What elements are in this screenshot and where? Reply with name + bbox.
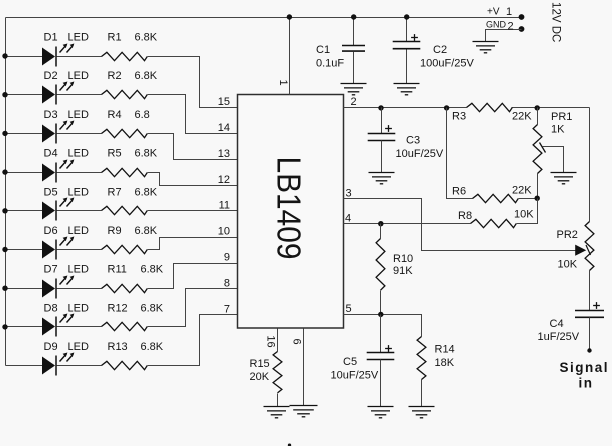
svg-text:LED: LED bbox=[68, 70, 89, 82]
ground C2 bbox=[394, 84, 420, 95]
svg-text:LED: LED bbox=[68, 186, 89, 198]
wire GND stub bbox=[486, 30, 522, 42]
node GND terminal bbox=[519, 26, 525, 32]
LED D8 bbox=[42, 314, 74, 337]
wire pin 3 to PR2 wiper bbox=[344, 199, 576, 251]
svg-text:LED: LED bbox=[68, 264, 89, 276]
LED D4 bbox=[42, 160, 74, 183]
svg-text:10uF/25V: 10uF/25V bbox=[396, 148, 444, 160]
wire LED row D2 from bus bbox=[6, 94, 43, 96]
resistor R1 bbox=[102, 52, 148, 60]
svg-text:6.8K: 6.8K bbox=[135, 186, 158, 198]
svg-text:R13: R13 bbox=[108, 341, 128, 353]
svg-text:10: 10 bbox=[218, 226, 230, 238]
ground C3 bbox=[369, 173, 395, 184]
svg-text:LB1409: LB1409 bbox=[271, 157, 308, 260]
wire pin 6 to ground bbox=[303, 329, 305, 406]
wire D2 cathode to R2 bbox=[57, 94, 102, 96]
svg-text:R3: R3 bbox=[452, 111, 466, 123]
resistor R9 bbox=[102, 245, 148, 253]
LED D2 bbox=[42, 82, 74, 105]
wire left LED bus bbox=[5, 18, 7, 366]
svg-text:16: 16 bbox=[265, 335, 277, 347]
wire D1 cathode to R1 bbox=[57, 56, 102, 58]
svg-text:10K: 10K bbox=[558, 259, 578, 271]
svg-text:0.1uF: 0.1uF bbox=[316, 58, 344, 70]
svg-text:6.8K: 6.8K bbox=[135, 225, 158, 237]
svg-text:R15: R15 bbox=[250, 358, 270, 370]
node signal terminal bbox=[587, 348, 591, 352]
svg-text:D7: D7 bbox=[44, 264, 58, 276]
svg-text:10uF/25V: 10uF/25V bbox=[331, 370, 379, 382]
wire LED row D1 from bus bbox=[6, 56, 43, 58]
svg-text:PR2: PR2 bbox=[557, 229, 578, 241]
svg-text:C1: C1 bbox=[316, 44, 330, 56]
capacitor C4 1uF/25V bbox=[593, 302, 600, 309]
svg-text:R10: R10 bbox=[393, 253, 413, 265]
svg-text:LED: LED bbox=[68, 109, 89, 121]
op-amp U1 LB1409 IC body bbox=[238, 95, 344, 329]
svg-text:5: 5 bbox=[346, 303, 352, 315]
resistor R10 91K bbox=[380, 224, 382, 239]
svg-text:LED: LED bbox=[68, 32, 89, 44]
resistor R3 22K bbox=[444, 105, 449, 110]
svg-text:6.8K: 6.8K bbox=[141, 341, 164, 353]
svg-text:8: 8 bbox=[224, 277, 230, 289]
svg-text:D5: D5 bbox=[44, 186, 58, 198]
wire R5 to pin 12 bbox=[148, 173, 238, 186]
svg-text:6.8K: 6.8K bbox=[141, 264, 164, 276]
svg-text:22K: 22K bbox=[512, 111, 532, 123]
wire D9 cathode to R13 bbox=[57, 365, 102, 367]
svg-text:Signal: Signal bbox=[560, 360, 610, 375]
capacitor C3 10uF/25V bbox=[378, 105, 383, 110]
svg-text:7: 7 bbox=[224, 303, 230, 315]
wire D4 cathode to R5 bbox=[57, 172, 102, 174]
svg-text:D4: D4 bbox=[44, 148, 58, 160]
resistor R12 bbox=[102, 322, 148, 330]
svg-text:9: 9 bbox=[224, 252, 230, 264]
svg-text:6.8: 6.8 bbox=[135, 109, 150, 121]
svg-text:14: 14 bbox=[218, 122, 230, 134]
ground C5 bbox=[368, 407, 394, 418]
wire LED row D8 from bus bbox=[6, 326, 43, 328]
svg-text:GND: GND bbox=[486, 20, 507, 30]
LED D3 bbox=[42, 121, 74, 144]
svg-text:D8: D8 bbox=[44, 302, 58, 314]
node bus junction D7 bbox=[2, 286, 7, 291]
ground R15 bbox=[264, 407, 290, 418]
wire D8 cathode to R12 bbox=[57, 326, 102, 328]
svg-text:D6: D6 bbox=[44, 225, 58, 237]
LED D1 bbox=[42, 44, 74, 67]
resistor R7 bbox=[102, 206, 148, 214]
wire D5 cathode to R7 bbox=[57, 210, 102, 212]
svg-text:+V: +V bbox=[487, 7, 500, 18]
capacitor C2 100uF/25V bbox=[406, 18, 408, 42]
svg-text:R7: R7 bbox=[108, 186, 122, 198]
wire LED row D4 from bus bbox=[6, 172, 43, 174]
resistor R6 22K bbox=[447, 108, 473, 199]
svg-text:1: 1 bbox=[506, 6, 512, 18]
wire R1 to pin 15 bbox=[148, 57, 238, 108]
svg-text:13: 13 bbox=[218, 148, 230, 160]
node +V terminal bbox=[519, 14, 525, 20]
svg-text:91K: 91K bbox=[393, 265, 413, 277]
svg-text:R11: R11 bbox=[108, 264, 127, 276]
svg-text:R12: R12 bbox=[108, 302, 128, 314]
svg-text:3: 3 bbox=[346, 188, 352, 200]
svg-text:D1: D1 bbox=[44, 32, 58, 44]
node bus junction D2 bbox=[2, 92, 7, 97]
svg-text:D2: D2 bbox=[44, 70, 58, 82]
svg-text:6.8K: 6.8K bbox=[135, 32, 158, 44]
svg-text:2: 2 bbox=[508, 21, 514, 33]
wire R11 to pin 9 bbox=[148, 264, 238, 289]
wire LED row D5 from bus bbox=[6, 210, 43, 212]
svg-text:C5: C5 bbox=[343, 356, 357, 368]
svg-text:C4: C4 bbox=[550, 318, 564, 330]
resistor R11 bbox=[102, 284, 148, 292]
potentiometer PR2 10K bbox=[585, 222, 594, 271]
svg-text:C3: C3 bbox=[406, 135, 420, 147]
wire pin 1 to rail bbox=[289, 18, 291, 95]
resistor R4 bbox=[102, 129, 148, 137]
wire R7 to pin 11 bbox=[148, 210, 238, 212]
capacitor C5 10uF/25V bbox=[380, 315, 382, 353]
ground R14 bbox=[409, 407, 435, 418]
node bus junction D6 bbox=[2, 247, 7, 252]
ground GND terminal bbox=[473, 42, 499, 53]
wire D7 cathode to R11 bbox=[57, 288, 102, 290]
svg-text:100uF/25V: 100uF/25V bbox=[420, 58, 474, 70]
svg-text:22K: 22K bbox=[512, 185, 532, 197]
wire R9 to pin 10 bbox=[148, 238, 238, 250]
LED D6 bbox=[42, 237, 74, 260]
resistor R15 20K on pin 16 bbox=[277, 329, 279, 352]
svg-text:in: in bbox=[579, 376, 594, 391]
resistor R2 bbox=[102, 90, 148, 98]
svg-text:R1: R1 bbox=[108, 32, 122, 44]
svg-text:6.8K: 6.8K bbox=[135, 148, 158, 160]
svg-text:D3: D3 bbox=[44, 109, 58, 121]
wire R12 to pin 8 bbox=[148, 289, 238, 327]
node bus junction D5 bbox=[2, 208, 7, 213]
svg-text:R9: R9 bbox=[108, 225, 122, 237]
wire D6 cathode to R9 bbox=[57, 249, 102, 251]
wire LED row D9 from bus bbox=[6, 365, 43, 367]
resistor R5 bbox=[102, 168, 148, 176]
svg-text:18K: 18K bbox=[435, 357, 455, 369]
svg-text:PR1: PR1 bbox=[551, 111, 572, 123]
ground pin 6 bbox=[290, 406, 318, 417]
svg-text:6: 6 bbox=[291, 338, 303, 344]
potentiometer PR1 1K bbox=[537, 108, 539, 125]
svg-text:6.8K: 6.8K bbox=[135, 70, 158, 82]
capacitor C1 0.1uF bbox=[353, 18, 355, 46]
svg-text:LED: LED bbox=[68, 148, 89, 160]
resistor R8 10K bbox=[471, 219, 517, 227]
stray mark bottom bbox=[288, 444, 291, 446]
LED D7 bbox=[42, 276, 74, 299]
svg-text:12V DC: 12V DC bbox=[550, 2, 562, 42]
svg-text:12: 12 bbox=[218, 174, 230, 186]
svg-text:R2: R2 bbox=[108, 70, 122, 82]
svg-text:11: 11 bbox=[219, 200, 230, 212]
svg-text:LED: LED bbox=[68, 302, 89, 314]
svg-text:LED: LED bbox=[68, 341, 89, 353]
ground C1 bbox=[341, 84, 367, 95]
svg-text:R6: R6 bbox=[452, 186, 466, 198]
wire pin 4 net bbox=[344, 223, 471, 225]
svg-text:C2: C2 bbox=[433, 44, 447, 56]
svg-text:2: 2 bbox=[351, 96, 357, 108]
svg-text:R14: R14 bbox=[435, 344, 455, 356]
svg-text:1: 1 bbox=[277, 79, 289, 85]
wire R4 to pin 13 bbox=[148, 134, 238, 160]
wire D3 cathode to R4 bbox=[57, 133, 102, 135]
wire LED row D6 from bus bbox=[6, 249, 43, 251]
svg-text:R4: R4 bbox=[108, 109, 122, 121]
svg-text:4: 4 bbox=[345, 213, 351, 225]
svg-text:1uF/25V: 1uF/25V bbox=[538, 331, 580, 343]
ground PR1 wiper bbox=[551, 173, 577, 184]
wire LED row D3 from bus bbox=[6, 133, 43, 135]
resistor R14 18K bbox=[417, 337, 426, 380]
wire R13 to pin 7 bbox=[148, 315, 238, 366]
node bus junction D8 bbox=[2, 324, 7, 329]
wire top +V rail bbox=[6, 17, 522, 19]
svg-text:15: 15 bbox=[218, 96, 230, 108]
wire LED row D7 from bus bbox=[6, 288, 43, 290]
node bus junction D4 bbox=[2, 169, 7, 174]
node pin1 rail junction bbox=[287, 14, 292, 19]
resistor R13 bbox=[102, 361, 148, 369]
LED D9 bbox=[42, 353, 74, 376]
svg-text:R5: R5 bbox=[108, 148, 122, 160]
wire PR1 wiper to ground bbox=[540, 143, 546, 153]
node bus junction D1 bbox=[2, 53, 7, 58]
svg-text:10K: 10K bbox=[514, 209, 534, 221]
svg-text:LED: LED bbox=[68, 225, 89, 237]
svg-text:D9: D9 bbox=[44, 341, 58, 353]
wire pin 2 net bbox=[344, 107, 467, 109]
wire pin 5 net bbox=[344, 315, 422, 337]
svg-text:R8: R8 bbox=[458, 210, 472, 222]
wire right rail pin2 to PR2 bbox=[589, 108, 591, 222]
node bus junction D3 bbox=[2, 131, 7, 136]
LED D5 bbox=[42, 198, 74, 221]
svg-text:1K: 1K bbox=[551, 124, 565, 136]
svg-text:6.8K: 6.8K bbox=[141, 302, 164, 314]
svg-text:20K: 20K bbox=[250, 371, 270, 383]
wiper arrow PR2 bbox=[575, 245, 586, 256]
wire R2 to pin 14 bbox=[148, 95, 238, 134]
